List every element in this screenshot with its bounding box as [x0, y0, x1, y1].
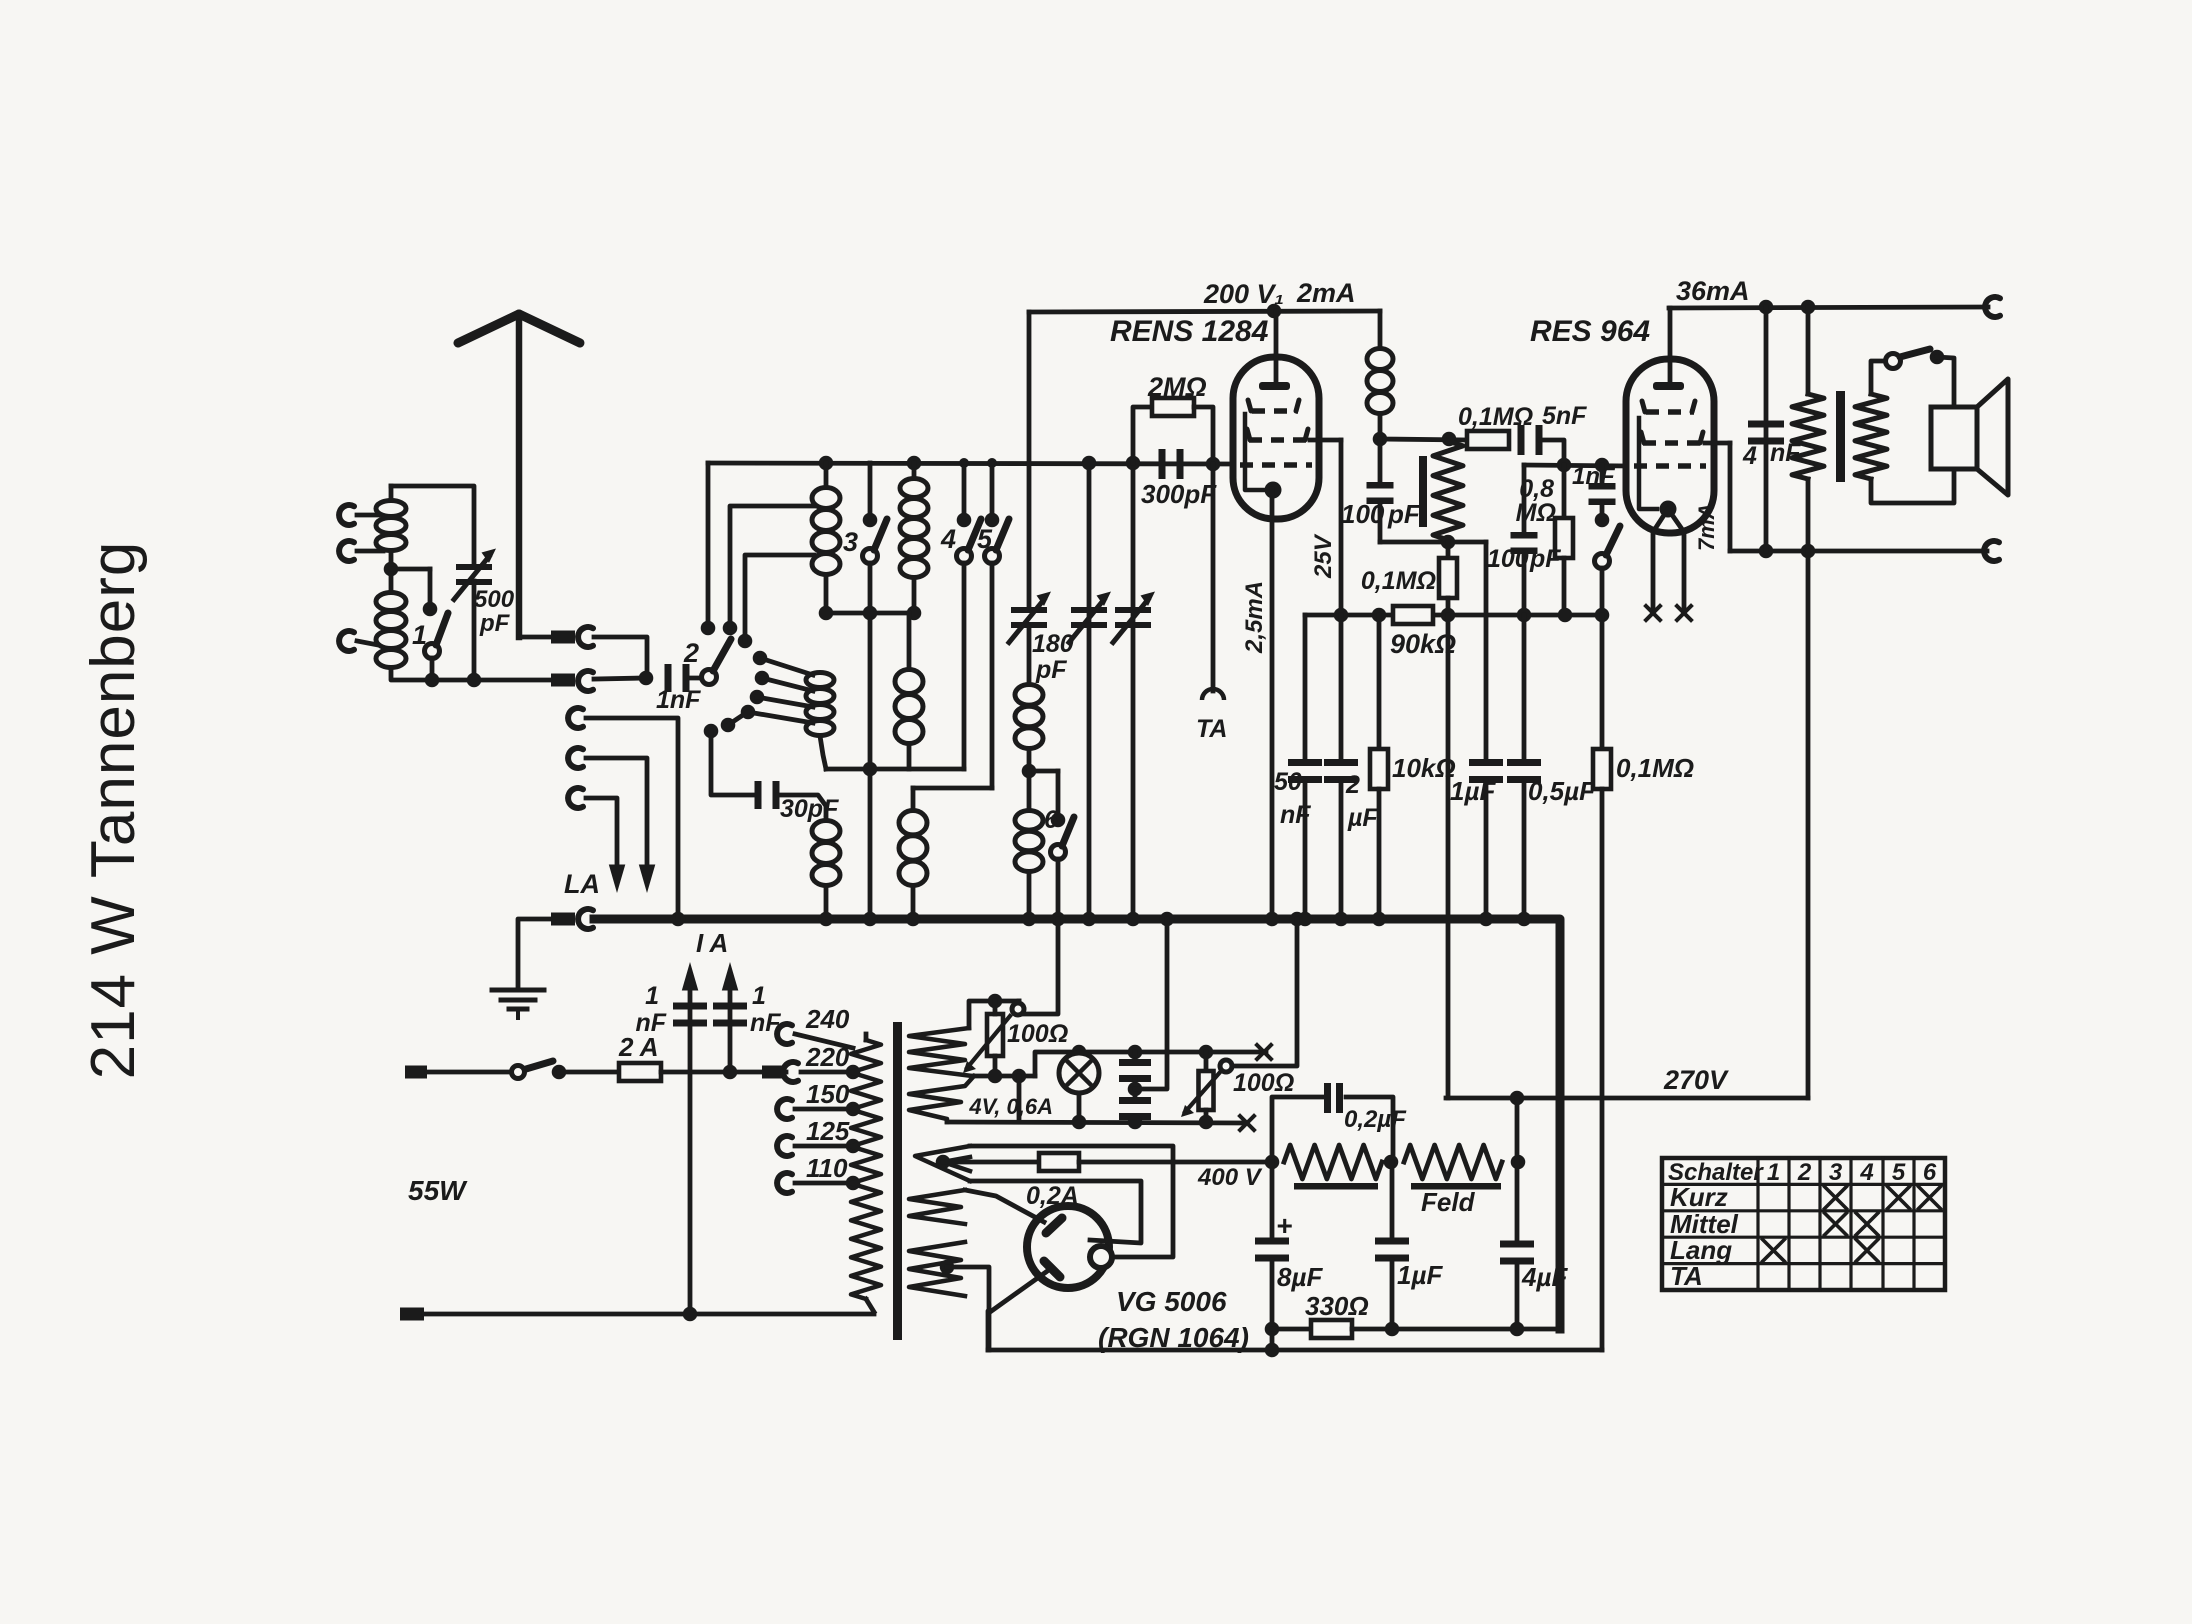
wire 270V: [1446, 1096, 1808, 1101]
capacitor 50nF: [1303, 615, 1308, 760]
svg-text:1: 1: [645, 982, 659, 1010]
svg-text:2: 2: [1797, 1159, 1812, 1186]
svg-text:+: +: [1276, 1210, 1292, 1241]
output transformer secondary: [1855, 394, 1887, 479]
switch 4: [959, 458, 969, 468]
node 615 100pf: [1517, 608, 1532, 623]
wire coil B bottom: [820, 736, 826, 769]
terminal A1: [578, 627, 593, 647]
svg-text:VG 5006: VG 5006: [1116, 1286, 1227, 1317]
node bus 05uF: [1517, 912, 1532, 927]
svg-text:4V, 0,6A: 4V, 0,6A: [968, 1094, 1053, 1119]
RENS grid 1: [1252, 408, 1298, 414]
wire mains neutral: [424, 1312, 874, 1317]
node tap 220: [846, 1065, 861, 1080]
wire screen 25V: [1339, 440, 1344, 615]
table X Kurz 6: [1919, 1187, 1941, 1209]
coil F: [1027, 627, 1032, 684]
output transformer primary: [1806, 307, 1811, 394]
output transformer core: [1836, 391, 1845, 482]
tone switch: [1595, 554, 1610, 569]
RES grid 2: [1643, 440, 1705, 446]
svg-text:270V: 270V: [1663, 1065, 1729, 1095]
svg-text:4µF: 4µF: [1521, 1262, 1568, 1292]
RES cathode bracket: [1639, 418, 1657, 509]
wire RENS cathode down: [1270, 489, 1275, 919]
svg-text:0,1MΩ: 0,1MΩ: [1616, 753, 1694, 783]
node neutral cap: [683, 1307, 698, 1322]
HT rail: [988, 1311, 989, 1350]
terminal aux 2: [568, 748, 583, 768]
svg-text:6: 6: [1923, 1159, 1937, 1186]
svg-text:pF: pF: [479, 610, 511, 637]
svg-text:5nF: 5nF: [1542, 402, 1587, 430]
svg-text:6: 6: [1044, 806, 1059, 834]
svg-text:1µF: 1µF: [1450, 776, 1496, 806]
node 400V 8uF: [1265, 1155, 1280, 1170]
svg-text:1µF: 1µF: [1397, 1260, 1443, 1290]
coil B: [806, 673, 834, 688]
wire terminal drop 678: [586, 718, 678, 919]
node rect ct: [940, 1260, 955, 1275]
terminal ant coupling top: [339, 505, 354, 525]
node bus coilE: [906, 912, 921, 927]
node heater ct: [1128, 1082, 1143, 1097]
node OT bottom: [1801, 544, 1816, 559]
node bus varcap mid: [1082, 912, 1097, 927]
terminal aux 1: [568, 708, 583, 728]
wire heater mid: [974, 1074, 1035, 1079]
node choke mid: [1384, 1155, 1399, 1170]
node 769 switch3 col: [863, 762, 878, 777]
wire rect ct: [947, 1267, 989, 1350]
node bus heater ct: [1160, 912, 1175, 927]
node 615 screen: [1334, 608, 1349, 623]
resistor 0.8M: [1562, 465, 1567, 518]
wire mains 2: [559, 1070, 619, 1075]
node tap 125: [846, 1139, 861, 1154]
wire coil L1 top to 500pF: [391, 486, 474, 563]
node bus 678: [671, 912, 686, 927]
svg-text:7mA: 7mA: [1694, 503, 1719, 551]
svg-text:8µF: 8µF: [1277, 1262, 1323, 1292]
svg-text:pF: pF: [1387, 499, 1421, 529]
node bus varcap right: [1126, 912, 1141, 927]
wire heater bottom rail: [947, 1122, 1247, 1123]
wire rect filament return: [990, 1272, 1046, 1312]
wire 1nF to switch2: [690, 676, 702, 681]
node bus 1uF: [1479, 912, 1494, 927]
terminal aux 3: [568, 788, 583, 808]
wire tap 240: [795, 1034, 853, 1048]
capacitor 30pF: [755, 781, 762, 809]
capacitor 0.5uF: [1522, 615, 1527, 760]
wire heater top rail: [1035, 1052, 1266, 1076]
resistor 0.1M grid leak: [1600, 615, 1605, 749]
capacitor 5nF: [1518, 425, 1525, 455]
filament x mark a: [1646, 606, 1660, 620]
coil anode choke: [1378, 311, 1383, 348]
resistor 330 ohm: [1311, 1320, 1352, 1338]
svg-text:214 W Tannenberg: 214 W Tannenberg: [79, 541, 148, 1080]
node mains cap: [723, 1065, 738, 1080]
svg-text:0,2µF: 0,2µF: [1344, 1106, 1407, 1133]
node 330 left: [1265, 1322, 1280, 1337]
svg-text:110: 110: [806, 1153, 848, 1183]
table X Mittel 4: [1856, 1213, 1878, 1235]
hum pot terminal: [1017, 1001, 1022, 1004]
capacitor 1nF mains b: [713, 1003, 747, 1010]
capacitor 500pF: [456, 564, 492, 570]
terminal tap 150: [777, 1099, 792, 1119]
svg-text:TA: TA: [1670, 1261, 1703, 1291]
speaker switch: [1886, 354, 1901, 369]
terminal tap 240: [777, 1024, 792, 1044]
plug antenna: [551, 631, 575, 644]
terminal LA: [578, 909, 593, 929]
node RENS anode: [1267, 304, 1282, 319]
svg-text:pF: pF: [1529, 545, 1561, 573]
wire 439 row: [1380, 439, 1467, 440]
resistor 0.1M vertical: [1446, 542, 1451, 558]
capacitor 1nF mains a: [673, 1003, 707, 1010]
node bus 10k: [1372, 912, 1387, 927]
resistor 10k: [1377, 615, 1382, 749]
node tap 150: [846, 1102, 861, 1117]
node bus sw3: [863, 912, 878, 927]
node pot2 top: [1199, 1045, 1214, 1060]
node 270V 4uF: [1510, 1091, 1525, 1106]
svg-text:0,5µF: 0,5µF: [1528, 776, 1596, 806]
switch 5: [987, 458, 997, 468]
wire HV anode bottom: [970, 1181, 1141, 1243]
choke resistor: [1284, 1145, 1382, 1179]
node bus cathode: [1265, 912, 1280, 927]
node 615 10k: [1372, 608, 1387, 623]
svg-text:2: 2: [683, 638, 699, 668]
svg-text:220: 220: [805, 1042, 850, 1072]
svg-text:36mA: 36mA: [1676, 276, 1750, 306]
svg-text:100Ω: 100Ω: [1007, 1020, 1068, 1048]
node 330 4uF: [1510, 1322, 1525, 1337]
svg-text:4: 4: [1859, 1159, 1873, 1186]
node heater caps bottom: [1128, 1115, 1143, 1130]
table X Kurz 5: [1888, 1187, 1910, 1209]
RES filament leads: [1653, 509, 1668, 609]
svg-text:330Ω: 330Ω: [1305, 1291, 1369, 1321]
svg-text:RENS 1284: RENS 1284: [1110, 315, 1269, 348]
tube RENS 1284: [1233, 357, 1319, 519]
switch 6: [1056, 771, 1061, 820]
node 1nF input: [639, 671, 654, 686]
filament x mark b: [1677, 606, 1691, 620]
svg-text:2: 2: [1345, 771, 1360, 799]
table X Lang 4: [1856, 1239, 1878, 1261]
RES screen wire: [1705, 441, 1730, 446]
wire switch5 to coil E: [913, 786, 992, 791]
svg-text:1: 1: [752, 982, 766, 1010]
fuse HT: [1039, 1153, 1079, 1171]
capacitor 0.2uF loop: [1272, 1097, 1322, 1162]
svg-text:2mA: 2mA: [1296, 278, 1356, 308]
capacitor 100pF anode: [1378, 439, 1383, 484]
svg-text:4: 4: [1742, 442, 1757, 470]
mains switch contact: [552, 1065, 567, 1080]
svg-text:3: 3: [843, 527, 858, 557]
choke core bar: [1294, 1183, 1378, 1190]
node pot2 bottom: [1199, 1115, 1214, 1130]
wire LA arrow 2: [586, 798, 617, 870]
RF bypass arrow 1: [688, 985, 693, 1314]
resistor 0.1M ohm top: [1467, 431, 1509, 449]
wire anode rail RES: [1669, 307, 1988, 308]
svg-text:nF: nF: [1280, 801, 1311, 829]
node L1/L2 junction: [384, 562, 399, 577]
coil D: [912, 463, 917, 478]
wire tap 110: [795, 1181, 853, 1186]
switch2 contact c: [738, 634, 753, 649]
switch table grid: [1662, 1158, 1945, 1290]
wire fan 4: [748, 712, 813, 723]
RENS cathode: [1265, 482, 1282, 499]
svg-text:2MΩ: 2MΩ: [1147, 372, 1207, 402]
wire to switch 6: [1029, 769, 1058, 774]
capacitor 300pF: [1159, 449, 1166, 479]
fuse 2A: [619, 1063, 661, 1081]
wire heater drop: [1017, 1076, 1022, 1122]
capacitor 2uF: [1339, 615, 1344, 760]
wire coil C to bus: [824, 886, 829, 919]
mains switch: [512, 1066, 525, 1079]
hum pot 2 terminal: [1220, 1060, 1232, 1072]
svg-text:240: 240: [805, 1004, 850, 1034]
svg-text:2,5mA: 2,5mA: [1241, 581, 1268, 654]
wire contact b to coil A tap: [730, 506, 814, 628]
wire secondary top: [1871, 361, 1886, 394]
node 615 right: [1595, 608, 1610, 623]
wire 400V left: [943, 1160, 1039, 1165]
RENS screen wire: [1310, 438, 1341, 443]
svg-text:I A: I A: [696, 928, 728, 958]
winding heater A: [909, 1028, 972, 1076]
wire 500pF bottom: [472, 581, 477, 680]
terminal output top: [1985, 297, 2000, 317]
node choke bottom: [1373, 432, 1388, 447]
svg-text:100Ω: 100Ω: [1233, 1069, 1294, 1097]
switch2 fan contact 4: [741, 705, 756, 720]
node HV tap: [936, 1155, 951, 1170]
RF bypass arrow 2: [728, 985, 733, 1072]
ground symbol: [492, 988, 544, 993]
node rail4nF top: [1759, 300, 1774, 315]
svg-text:3: 3: [1829, 1159, 1843, 1186]
table X Lang 1: [1763, 1239, 1785, 1261]
node tap 110: [846, 1176, 861, 1191]
wire mains 1: [427, 1070, 512, 1075]
switch2 fan contact 1: [753, 651, 768, 666]
RES control grid: [1634, 463, 1706, 469]
winding rect heater 2: [909, 1242, 965, 1296]
svg-text:50: 50: [1274, 768, 1302, 796]
svg-text:RES 964: RES 964: [1530, 315, 1650, 348]
wire 330 row b: [1352, 1327, 1560, 1332]
terminal ant coupling mid: [339, 541, 354, 561]
node OT top: [1801, 300, 1816, 315]
terminal tap 110: [777, 1173, 792, 1193]
wire tap 125: [795, 1144, 853, 1149]
speaker: [1931, 407, 1977, 469]
capacitor 1uF filter: [1390, 1162, 1395, 1238]
node tone switch top: [1595, 513, 1610, 528]
svg-text:5: 5: [977, 524, 993, 554]
wire A2 to 1nF node: [594, 678, 645, 679]
hum pot wiper: [967, 1016, 1010, 1068]
coil A: [824, 463, 829, 487]
node bus coilC: [819, 912, 834, 927]
RENS anode: [1274, 311, 1279, 380]
node bus coilG: [1022, 912, 1037, 927]
node 330 1uF: [1385, 1322, 1400, 1337]
RES grid 1: [1646, 409, 1694, 415]
winding HV inner: [943, 1157, 970, 1171]
LA arrowhead 1: [639, 865, 656, 894]
wire term to coil L2: [357, 641, 378, 645]
svg-text:LA: LA: [564, 869, 600, 899]
node coil A top: [819, 456, 834, 471]
hum pot 2 100 ohm: [1204, 1052, 1209, 1071]
svg-text:0,1MΩ: 0,1MΩ: [1361, 567, 1436, 595]
transformer primary winding: [851, 1040, 881, 1299]
terminal 220 plugged: [783, 1062, 798, 1082]
wire LA arrow 1: [586, 758, 647, 870]
wire term to coil L1 bottom: [357, 549, 383, 554]
node bus 50nF: [1298, 912, 1313, 927]
svg-text:1: 1: [412, 620, 427, 650]
wire secondary bottom: [1871, 469, 1954, 503]
volume pot resistor: [1442, 432, 1457, 447]
ground wire: [518, 919, 553, 988]
coil C: [812, 821, 840, 842]
winding lamp B: [909, 1076, 974, 1122]
capacitor 1nF input: [665, 664, 672, 692]
svg-text:300pF: 300pF: [1141, 479, 1217, 509]
svg-text:125: 125: [806, 1116, 850, 1146]
svg-text:1nF: 1nF: [656, 686, 701, 714]
terminal output bottom: [1984, 541, 1999, 561]
tube VG 5006: [1027, 1206, 1109, 1288]
node heater caps top: [1128, 1045, 1143, 1060]
node 465 b: [1595, 458, 1610, 473]
capacitor 1uF: [1484, 542, 1489, 760]
node 615 01m: [1441, 608, 1456, 623]
node bus sw6: [1051, 912, 1066, 927]
wire 30pF to coil C: [778, 795, 826, 820]
svg-text:4: 4: [940, 524, 956, 554]
wire 769: [826, 767, 964, 772]
capacitor 8uF: [1270, 1162, 1275, 1238]
tube RES 964: [1626, 359, 1714, 533]
RES anode: [1668, 308, 1673, 380]
terminal ant coupling low: [339, 631, 354, 651]
hum pot 2 wiper: [1185, 1070, 1222, 1112]
wire fan 1: [760, 658, 813, 675]
x mark heater top: [1257, 1045, 1271, 1059]
wire 220 tap: [801, 1070, 853, 1075]
node field right: [1511, 1155, 1526, 1170]
table X Kurz 3: [1825, 1187, 1847, 1209]
VG filament bump: [1090, 1246, 1112, 1268]
coil E: [911, 788, 916, 810]
variable capacitor 180pF: [1027, 312, 1032, 608]
variable capacitor mid: [1087, 463, 1092, 919]
wire coil bottom: [391, 668, 553, 680]
node HT 8uF: [1265, 1343, 1280, 1358]
node lamp bottom: [1072, 1115, 1087, 1130]
svg-text:µF: µF: [1347, 804, 1378, 832]
hum pot 100 ohm: [987, 1014, 1003, 1056]
antenna symbol: [516, 322, 523, 637]
capacitor 4uF: [1515, 1098, 1520, 1241]
node rail4nF bottom: [1759, 544, 1774, 559]
switch 3: [868, 463, 873, 520]
svg-text:TA: TA: [1196, 715, 1227, 743]
wire heater ct: [1135, 919, 1167, 1089]
wire bottom rail RES: [1730, 549, 1987, 554]
VG anode bar 1: [1046, 1218, 1062, 1233]
field core bar: [1411, 1183, 1501, 1190]
wire 613: [826, 611, 914, 616]
field coil Feld: [1404, 1145, 1502, 1179]
wire screen drop: [1728, 443, 1733, 551]
svg-text:Kurz: Kurz: [1670, 1182, 1728, 1212]
capacitor 1nF coupling: [1600, 465, 1605, 486]
switch 1: [428, 569, 433, 609]
svg-text:500: 500: [474, 586, 515, 613]
wire tap 150: [795, 1107, 853, 1112]
capacitor heater b: [1119, 1097, 1151, 1104]
wire antenna to plug: [519, 635, 553, 640]
wire HV anode top: [970, 1146, 1173, 1257]
wire grid row 465: [1524, 465, 1627, 466]
switch2 lower contact pair: [721, 718, 736, 733]
node pot1 top: [988, 994, 1003, 1009]
mains plug N: [400, 1308, 424, 1321]
variable capacitor right: [1131, 463, 1136, 919]
RENS cathode bracket: [1245, 414, 1264, 490]
svg-text:25V: 25V: [1310, 533, 1337, 579]
node 613 switch3: [863, 606, 878, 621]
svg-text:1: 1: [1767, 1159, 1780, 1186]
node coil D top: [907, 456, 922, 471]
wire top rail 463: [708, 463, 1234, 464]
wire fan 2: [762, 678, 813, 691]
wire 400V right: [1079, 1160, 1272, 1165]
node 465 a: [1557, 458, 1572, 473]
wire mains 3: [661, 1070, 786, 1075]
svg-text:100: 100: [1341, 499, 1385, 529]
x mark heater bottom: [1240, 1116, 1254, 1130]
terminal A2: [578, 671, 593, 691]
wire anode rail 311: [1029, 311, 1380, 312]
node grid rail left: [1206, 457, 1221, 472]
plug LA: [551, 913, 575, 926]
RENS grid 2: [1249, 437, 1310, 443]
node 615 08m: [1558, 608, 1573, 623]
node bus 2uF: [1334, 912, 1349, 927]
mains plug L: [405, 1066, 427, 1079]
terminal tap 125: [777, 1136, 792, 1156]
coil G: [1027, 771, 1032, 810]
